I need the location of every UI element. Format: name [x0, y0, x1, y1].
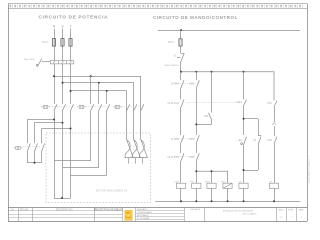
svg-text:R: R — [53, 25, 56, 29]
contactor KM4 star contacts — [27, 144, 44, 163]
svg-text:DESCRIPCION: DESCRIPCION — [56, 208, 73, 211]
svg-text:ESCUELA: ESCUELA — [191, 208, 201, 211]
contact KM1 aux rowB b1 — [181, 100, 184, 108]
contactor KM2 power contacts — [91, 104, 110, 110]
contactor KM1 power contacts — [54, 104, 74, 110]
mech link KM2 — [85, 106, 106, 108]
svg-text:FUS 2: FUS 2 — [168, 42, 175, 44]
svg-text:CIRCUITO DE MANDO/CONTROL: CIRCUITO DE MANDO/CONTROL — [153, 15, 238, 20]
branch5 wire — [244, 72, 259, 183]
node dot bottom short — [61, 197, 63, 199]
wire group3 feeders — [127, 76, 141, 140]
contact KM4 aux rowA b1 — [181, 80, 184, 88]
svg-text:KM1: KM1 — [189, 139, 194, 141]
wire winding bus — [125, 158, 148, 164]
svg-text:S1: S1 — [174, 56, 178, 58]
svg-text:ID. NORMAS: ID. NORMAS — [137, 217, 150, 220]
node dots coil bus — [195, 170, 212, 172]
coil H1 — [239, 181, 248, 201]
svg-text:KM4: KM4 — [189, 157, 194, 159]
contactor KM3 label box — [113, 105, 122, 108]
contactor KM2 label box — [77, 105, 86, 108]
svg-text:CIRCUITO DE POTENCIA: CIRCUITO DE POTENCIA — [39, 14, 109, 20]
svg-text:CADe SIMU PLANO 1 / 1: CADe SIMU PLANO 1 / 1 — [308, 155, 311, 183]
node dot seal join — [195, 123, 197, 125]
control labels — [168, 84, 273, 159]
motor dashed enclosure — [46, 133, 151, 202]
title block headers — [11, 207, 72, 211]
pushbutton S2 b5 — [241, 137, 247, 145]
wire distribution L3 — [71, 90, 127, 92]
svg-text:KM2: KM2 — [237, 102, 242, 104]
svg-text:REV.: REV. — [299, 209, 304, 211]
mech link KM3 — [121, 106, 140, 108]
svg-text:Nº PL.: Nº PL. — [288, 208, 294, 211]
emergency stop S1 — [177, 53, 184, 61]
motor winding U — [125, 140, 133, 158]
svg-text:S3: S3 — [253, 140, 257, 142]
node dot top rail — [180, 29, 182, 31]
svg-text:KM2: KM2 — [267, 140, 272, 142]
node dots star taps — [53, 119, 72, 130]
contact rowC b6 — [274, 137, 277, 144]
contact rowA b2 — [196, 80, 199, 88]
node dots distribution — [53, 75, 108, 92]
fuse F2 — [179, 39, 182, 46]
fuse F1 pole T — [69, 39, 72, 47]
svg-text:COMPROBADO: COMPROBADO — [137, 211, 152, 214]
mech link dashes control — [174, 84, 243, 157]
node dots rail2 — [180, 71, 245, 73]
svg-text:ARRANQUE MOTOR DAHLANDER: ARRANQUE MOTOR DAHLANDER — [223, 210, 254, 213]
svg-text:FECHA: FECHA — [20, 208, 29, 211]
coil KM4 crossed — [221, 181, 232, 201]
coil KM3 — [205, 181, 216, 201]
wire phase S vertical — [62, 29, 64, 198]
svg-text:61-62 KM3: 61-62 KM3 — [168, 157, 180, 159]
fuse F1 pole S — [61, 39, 64, 47]
wire phase T vertical — [70, 29, 72, 198]
node dots branch5 — [243, 118, 245, 171]
switch Q1 three-pole box — [50, 61, 74, 64]
svg-text:S2: S2 — [239, 140, 243, 142]
svg-text:1: 1 — [291, 217, 293, 219]
motor winding W — [139, 140, 147, 158]
switch Q1 handle — [36, 59, 50, 67]
svg-text:0: 0 — [301, 217, 303, 219]
svg-text:DIBUJADO: DIBUJADO — [137, 208, 148, 211]
svg-text:T: T — [69, 25, 71, 29]
motor winding V — [132, 140, 140, 158]
mech link KM4 — [22, 146, 41, 148]
grid number strip — [9, 4, 302, 9]
wire distribution L2 — [63, 82, 134, 84]
coil KM1 — [175, 181, 186, 201]
branch6 wire — [274, 107, 276, 183]
wire group2 feeders — [91, 76, 107, 104]
mech link KM1 — [49, 106, 70, 108]
contactor KM4 label box — [14, 146, 23, 149]
title block verticals — [19, 208, 297, 222]
chevron mark b6 — [272, 123, 276, 125]
contact rowB b5 — [244, 100, 247, 106]
title block frame — [8, 207, 307, 209]
right cells — [279, 208, 304, 211]
logo — [125, 210, 133, 220]
wire star point — [27, 162, 41, 164]
svg-text:KM1: KM1 — [204, 116, 209, 118]
svg-text:Nº: Nº — [11, 207, 14, 211]
wire rail2 — [181, 72, 274, 100]
svg-text:SEC. GEN.: SEC. GEN. — [24, 59, 35, 61]
wire delta links — [54, 111, 107, 176]
contactor KM1 label box — [41, 105, 50, 108]
wire coil bus — [196, 171, 228, 183]
contact KM2 aux rowC b1 — [181, 135, 184, 143]
wire phase R vertical — [54, 29, 56, 198]
svg-text:FUS 1: FUS 1 — [42, 42, 49, 44]
svg-text:PROYECTO Nº DE DIBUJO: PROYECTO Nº DE DIBUJO — [94, 207, 123, 211]
node dots bottom rail — [180, 200, 275, 202]
contact seal KM1 — [209, 113, 212, 120]
drawing title text — [223, 210, 257, 216]
fuse F1 pole R — [52, 39, 55, 47]
names section labels — [137, 208, 152, 220]
contact rowD b2 — [196, 153, 199, 161]
wire distribution L1 — [54, 76, 141, 78]
svg-text:KM1: KM1 — [267, 103, 272, 105]
branch2 wire — [196, 72, 198, 183]
contact KM3 aux rowD b1 — [181, 153, 184, 161]
coil KM2 — [190, 181, 201, 201]
svg-text:S: S — [61, 25, 64, 29]
contact rowC b2 — [196, 135, 199, 143]
seal branch wire — [196, 72, 211, 125]
pushbutton S3 parallel — [258, 136, 261, 145]
wire bottom rail — [155, 201, 300, 203]
wire control drop — [180, 30, 182, 72]
svg-text:21-22 KM1: 21-22 KM1 — [168, 103, 180, 105]
wire control top rail — [158, 30, 300, 32]
wire star branch taps — [27, 120, 70, 144]
svg-text:ESC.: ESC. — [279, 209, 284, 211]
svg-text:KM3: KM3 — [189, 84, 194, 86]
svg-text:APROBADO: APROBADO — [137, 214, 149, 217]
coil H2 — [269, 181, 278, 201]
title block — [8, 207, 307, 221]
svg-text:1:1: 1:1 — [280, 217, 284, 219]
svg-text:PARO EMERG.: PARO EMERG. — [165, 64, 180, 67]
contactor KM3 power contacts — [127, 104, 144, 110]
branch1 wire — [180, 72, 182, 183]
contact rowB b6 — [274, 101, 277, 108]
svg-text:2 VELOCIDADES: 2 VELOCIDADES — [241, 212, 257, 215]
svg-text:21 KM2: 21 KM2 — [171, 139, 180, 141]
wire bottom short — [54, 198, 71, 200]
svg-text:21 KM4: 21 KM4 — [171, 84, 180, 86]
svg-text:MOTOR DAHLANDER 2V: MOTOR DAHLANDER 2V — [96, 190, 128, 193]
node dot star point — [34, 162, 36, 164]
